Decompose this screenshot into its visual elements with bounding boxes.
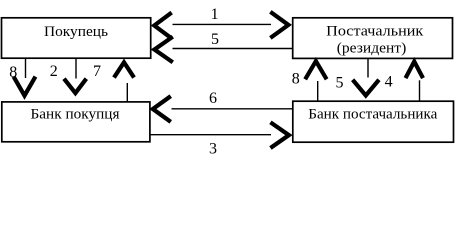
box Банк постачальника — [293, 101, 454, 142]
svg-text:2: 2 — [50, 63, 58, 80]
arrowhead up D — [305, 61, 326, 79]
arrowhead left at line 6 — [153, 96, 171, 122]
box Банк покупця — [2, 102, 150, 142]
svg-text:5: 5 — [336, 74, 344, 91]
box Покупець — [2, 18, 151, 58]
svg-text:6: 6 — [209, 90, 217, 107]
arrowhead right at line 1 — [270, 12, 288, 38]
svg-text:Банк покупця: Банк покупця — [31, 106, 120, 122]
wire F vertical (label 4, up arrow) — [419, 80, 421, 101]
box Постачальник (резидент) — [293, 18, 453, 59]
svg-text:4: 4 — [385, 73, 393, 90]
wire E vertical (label 5 right, down arrow) — [367, 59, 369, 78]
wire line 5 (top) — [173, 48, 293, 50]
svg-text:Банк постачальника: Банк постачальника — [308, 106, 437, 122]
svg-text:7: 7 — [93, 63, 101, 80]
arrowhead down E — [353, 80, 379, 96]
wire line 1 (top) — [173, 23, 272, 25]
svg-text:5: 5 — [211, 31, 219, 48]
wire D vertical (label 8 right, up arrow) — [317, 81, 319, 101]
arrowhead down A — [14, 77, 36, 96]
arrowhead down B — [64, 79, 86, 93]
wire A vertical (label 8 left) — [25, 59, 27, 78]
arrowhead left at line 5 — [154, 37, 172, 63]
svg-text:Постачальник: Постачальник — [326, 23, 424, 39]
arrowhead right at line 3 — [270, 122, 288, 148]
svg-text:1: 1 — [211, 6, 219, 23]
svg-text:8: 8 — [292, 71, 300, 88]
arrowhead up C — [114, 62, 134, 77]
arrowhead up F — [406, 62, 423, 79]
svg-text:3: 3 — [209, 140, 217, 157]
svg-text:Покупець: Покупець — [44, 24, 108, 40]
wire B vertical (label 2) — [75, 59, 77, 79]
wire line 6 (bottom) — [172, 108, 293, 110]
arrowhead left at line 1 — [154, 13, 171, 39]
svg-text:(резидент): (резидент) — [337, 41, 407, 57]
wire line 3 (bottom) — [150, 134, 271, 136]
wire C vertical (label 7, up arrow) — [126, 83, 128, 102]
